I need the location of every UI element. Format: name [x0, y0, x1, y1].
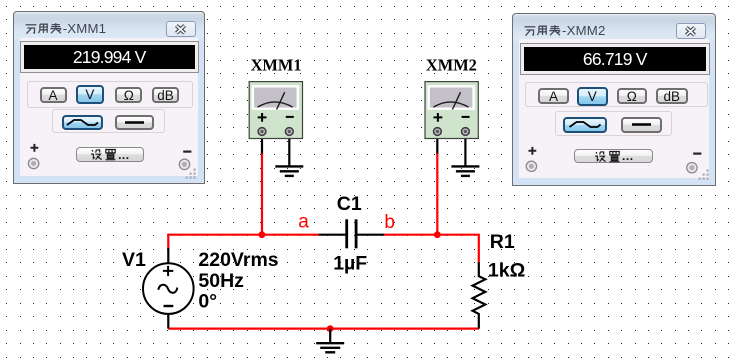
- XMM2 plus terminal label: [527, 145, 539, 157]
- XMM1 button Ohm: [115, 87, 142, 103]
- V1 bottom pin (black): [167, 314, 169, 329]
- ground for XMM1: [275, 166, 303, 176]
- svg-text:XMM1: XMM1: [251, 55, 302, 74]
- main ground (bottom): [316, 329, 344, 353]
- XMM2 button AC (selected): [563, 117, 607, 133]
- XMM1 button V (selected): [76, 85, 104, 104]
- wire: XMM2 + probe (red): [436, 153, 438, 235]
- label 1uF: [333, 253, 367, 275]
- instrument window XMM1: [13, 11, 205, 184]
- XMM1 close button: [166, 21, 196, 37]
- XMM1 button DC: [115, 115, 154, 130]
- svg-text:50Hz: 50Hz: [198, 270, 244, 292]
- XMM2 button dB: [656, 88, 688, 104]
- ground for XMM2: [451, 166, 479, 176]
- label 0deg: [198, 290, 217, 312]
- label R1: [490, 231, 515, 253]
- svg-text:V1: V1: [122, 249, 146, 271]
- source V1 circle: [143, 263, 194, 314]
- label V1: [122, 249, 146, 271]
- V1 top pin (black): [167, 248, 169, 264]
- wire: C1 right to R1 corner (red): [384, 235, 479, 263]
- XMM2 title text: [524, 23, 606, 38]
- XMM2 terminal jacks: [524, 159, 700, 176]
- XMM1 button AC (selected): [62, 115, 104, 130]
- wire: bottom horizontal (red): [168, 328, 479, 330]
- XMM2 settings button: [574, 149, 653, 164]
- XMM1 button A: [40, 87, 67, 103]
- svg-text:b: b: [384, 212, 395, 233]
- XMM1 settings button: [76, 147, 144, 162]
- label C1: [337, 193, 362, 215]
- XMM2 groupbox ac/dc: [555, 111, 673, 136]
- multimeter XMM2 symbol: [425, 82, 478, 139]
- wire: XMM2 - probe to ground (black): [464, 139, 466, 167]
- XMM2 resize grip: [697, 168, 711, 182]
- junction bottom ground dot: [327, 325, 334, 332]
- label 50Hz: [198, 270, 244, 292]
- XMM1 title text: [25, 21, 107, 36]
- XMM1 plus terminal label: [29, 142, 41, 154]
- XMM2 content panel: [519, 39, 709, 178]
- svg-text:R1: R1: [490, 231, 515, 253]
- instrument window XMM2: [512, 13, 716, 186]
- wire: V1 top drop (red): [167, 234, 169, 249]
- svg-text:220Vrms: 220Vrms: [198, 249, 278, 271]
- XMM2 button DC: [621, 117, 662, 133]
- svg-text:1kΩ: 1kΩ: [488, 260, 525, 282]
- wire: XMM2 + probe pin (black): [436, 139, 438, 154]
- wire: top horizontal V1 to C1 (red): [168, 234, 318, 236]
- label XMM2 (schematic): [426, 55, 477, 74]
- multimeter XMM1 symbol: [249, 82, 302, 139]
- XMM1 minus terminal label: [182, 146, 194, 158]
- junction node b dot: [434, 231, 441, 238]
- svg-text:C1: C1: [337, 193, 362, 215]
- XMM2 minus terminal label: [692, 148, 704, 160]
- resistor R1: [473, 262, 486, 328]
- XMM1 button dB: [152, 87, 179, 103]
- wire: XMM1 - probe to ground (black): [288, 139, 290, 167]
- XMM1 groupbox ac/dc: [52, 109, 166, 134]
- wire: XMM1 + probe (red): [261, 153, 263, 235]
- label 1kOhm: [488, 260, 525, 282]
- XMM1 groupbox modes: [27, 81, 193, 108]
- XMM1 display: [21, 42, 198, 72]
- XMM1 resize grip: [184, 167, 198, 181]
- XMM1 terminal jacks: [26, 156, 192, 172]
- XMM2 button Ohm: [617, 88, 648, 104]
- svg-text:a: a: [298, 212, 309, 233]
- XMM2 display: [521, 44, 709, 74]
- XMM2 button V (selected): [577, 87, 608, 106]
- capacitor C1: [319, 219, 385, 248]
- svg-text:0°: 0°: [198, 290, 217, 312]
- label 220Vrms: [198, 249, 278, 271]
- XMM2 close button: [676, 23, 706, 39]
- XMM1 content panel: [20, 38, 198, 177]
- svg-text:XMM2: XMM2: [426, 55, 477, 74]
- XMM2 groupbox modes: [525, 82, 708, 107]
- wire: XMM1 + probe pin (black): [261, 139, 263, 154]
- label XMM1 (schematic): [251, 55, 302, 74]
- node label b: [384, 212, 395, 233]
- svg-text:1µF: 1µF: [333, 253, 367, 275]
- junction node a dot: [259, 231, 266, 238]
- node label a: [298, 212, 309, 233]
- XMM2 button A: [538, 88, 568, 104]
